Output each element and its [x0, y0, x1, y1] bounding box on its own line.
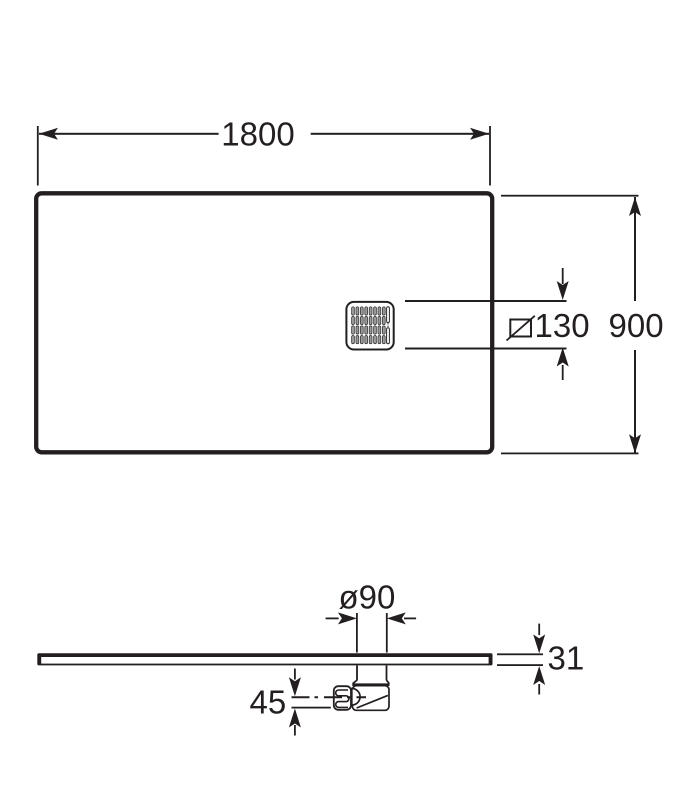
dimension 900 line bottom segment: [634, 350, 636, 453]
tray outline (top view 1800x900): [36, 193, 492, 452]
dimension o90 left extension line: [356, 613, 358, 653]
svg-text:1800: 1800: [221, 116, 294, 153]
dimension 1800 left extension line: [37, 126, 39, 186]
dimension 1800 line right segment: [311, 133, 489, 135]
dimension 130 top reference line: [405, 300, 567, 302]
dimension 900 bottom extension line: [501, 453, 639, 455]
drain grate slots: [352, 307, 386, 344]
dimension 31 lower arrowhead: [533, 666, 545, 685]
dimension 31 top extension line: [497, 653, 543, 655]
dimension o90 right extension line: [386, 613, 388, 653]
dimension 130 upper arrow line: [562, 268, 564, 284]
drain grate small marks: [387, 323, 389, 324]
dimension 130 lower arrowhead: [557, 348, 569, 367]
drain pipe right side: [386, 665, 388, 680]
dimension o90 left arrowhead: [338, 612, 357, 624]
square-drain symbol: [510, 320, 531, 337]
dimension 900 bottom arrowhead: [629, 434, 641, 453]
trap body: [352, 686, 389, 711]
square-drain symbol diagonal: [507, 316, 535, 341]
centerline dash-dot: [292, 696, 367, 698]
dimension 45 upper arrowhead: [289, 677, 301, 696]
dimension 1800 left arrowhead: [39, 128, 58, 140]
dimension 31 bottom extension line: [497, 664, 543, 666]
dimension 45 lower arrowhead: [289, 709, 301, 728]
drain grate outline: [346, 302, 393, 350]
tray profile inner white: [41, 657, 488, 664]
corrugated coupling: [334, 686, 351, 710]
dimension 900 top arrowhead: [629, 197, 641, 216]
trap diagonal: [357, 695, 388, 708]
dimension o90 right arrow line: [404, 618, 416, 620]
dimension 31 upper arrowhead: [533, 634, 545, 653]
dimension 130 bottom reference line: [405, 348, 567, 350]
trap collar: [353, 680, 390, 684]
dimension 45 lower reference line: [292, 707, 331, 709]
svg-text:45: 45: [250, 684, 287, 721]
dimension 31 lower arrow line: [538, 684, 540, 695]
tray profile (side view): [37, 653, 492, 665]
svg-text:ø90: ø90: [339, 578, 396, 615]
trap inlet dome: [352, 689, 360, 706]
dimension o90 right arrowhead: [387, 612, 406, 624]
dimension 45 lower arrow line: [294, 725, 296, 736]
corrugated coupling ridges: [336, 690, 349, 707]
dimension o90 left arrow line: [326, 618, 339, 620]
dimension 45 upper arrow line: [294, 669, 296, 680]
dimension 900 line top segment: [634, 197, 636, 301]
dimension 900 top extension line: [501, 195, 639, 197]
dimension 130 upper arrowhead: [557, 281, 569, 300]
svg-text:130: 130: [535, 307, 590, 344]
dimension 31 upper arrow line: [538, 624, 540, 636]
svg-text:31: 31: [548, 639, 585, 676]
dimension 1800 right extension line: [489, 126, 491, 186]
dimension 1800 right arrowhead: [470, 128, 489, 140]
drain pipe left side: [356, 665, 358, 680]
svg-text:900: 900: [609, 307, 664, 344]
dimension 130 lower arrow line: [562, 365, 564, 380]
drain grate right column slots: [387, 307, 390, 344]
dimension 1800 line left segment: [39, 133, 219, 135]
